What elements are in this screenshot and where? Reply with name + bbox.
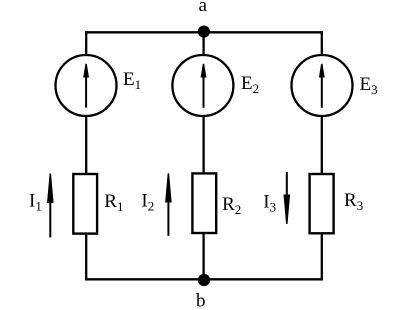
wire branch2 top segment (202, 32, 204, 56)
wire branch1 bottom segment (85, 234, 87, 280)
current arrow I2 (up) (165, 173, 172, 236)
source E2 arrow (201, 64, 207, 108)
svg-text:E1: E1 (123, 69, 141, 92)
svg-text:I3: I3 (263, 191, 276, 214)
node b junction dot (198, 274, 210, 286)
svg-text:R1: R1 (104, 191, 123, 214)
node a junction dot (198, 26, 210, 38)
wire branch3 top segment (321, 31, 323, 55)
current arrow I1 (up) (47, 174, 54, 238)
source E3 circle (292, 55, 353, 116)
source E1 circle (56, 55, 117, 116)
wire branch1 top segment (85, 31, 87, 55)
current arrow I3 (down) (284, 172, 291, 224)
resistor R2 body (192, 173, 216, 233)
wire bottom horizontal b-rail (85, 278, 323, 280)
source E3 arrow (319, 64, 325, 108)
svg-text:I2: I2 (141, 190, 154, 213)
source E2 circle (172, 55, 233, 116)
svg-text:E3: E3 (360, 74, 378, 97)
svg-text:b: b (196, 291, 206, 310)
wire branch3 bottom segment (321, 234, 323, 280)
wire branch1 middle segment (85, 117, 87, 174)
wire branch2 bottom segment (202, 234, 204, 280)
resistor R1 body (73, 174, 97, 234)
wire branch2 middle segment (202, 117, 204, 174)
svg-text:I1: I1 (29, 191, 42, 214)
resistor R3 body (310, 174, 334, 233)
svg-text:E2: E2 (241, 73, 259, 96)
svg-text:a: a (199, 0, 208, 16)
svg-text:R2: R2 (222, 194, 241, 217)
svg-text:R3: R3 (344, 190, 363, 213)
source E1 arrow (83, 64, 89, 108)
wire top horizontal a-rail (85, 31, 323, 33)
wire branch3 middle segment (321, 117, 323, 174)
